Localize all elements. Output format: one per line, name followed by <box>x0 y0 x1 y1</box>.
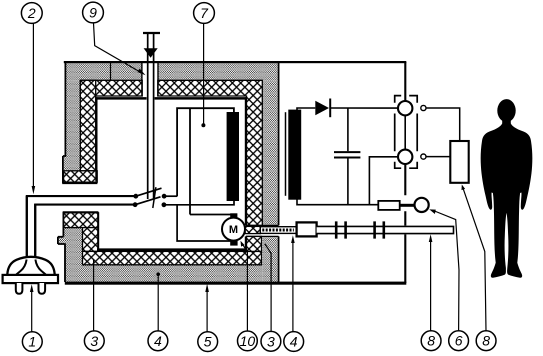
relay coil upper <box>398 101 412 115</box>
chamber outer casing stipple bottom-left tab <box>58 237 64 244</box>
wire lamp inner electrode to motor top <box>190 214 231 216</box>
chamber inner wall crosshatch top band left <box>80 80 142 96</box>
chamber inner wall crosshatch left cap <box>64 171 98 182</box>
antenna gap wall edges <box>142 62 158 96</box>
svg-text:4: 4 <box>290 334 298 350</box>
callout 4 first <box>148 272 168 350</box>
chamber inner liner ceiling <box>95 97 247 100</box>
chamber outer casing stipple top band right <box>158 63 279 81</box>
chamber inner liner left wall <box>95 97 97 181</box>
chamber outer casing border right <box>278 62 280 282</box>
door strip top edge <box>63 211 99 213</box>
callout 10 <box>238 241 258 351</box>
chamber inner wall crosshatch top band right and right column <box>158 80 262 225</box>
capacitor C1 branch upper <box>347 108 349 151</box>
wire switch upper contact to lamp electrode <box>164 195 177 197</box>
relay coil lower <box>398 150 412 164</box>
rod clamp marks pair 2 <box>375 221 384 238</box>
capacitor C1 branch lower <box>347 158 349 204</box>
svg-text:1: 1 <box>28 334 36 350</box>
wall gap edges at shaft <box>246 225 279 236</box>
chamber inner wall crosshatch bottom-left column <box>83 228 99 252</box>
door cap bottom edge <box>62 182 97 184</box>
svg-text:M: M <box>229 224 238 236</box>
chamber outer casing border left <box>58 62 66 282</box>
relay box broken outline <box>395 96 418 169</box>
resistor R1 <box>378 201 399 210</box>
wire resistor to indicator <box>400 204 415 207</box>
relay inter-coil wire <box>404 115 406 150</box>
power cord wire lower <box>35 205 135 259</box>
capacitor C1 <box>334 152 360 157</box>
wire relay terminal upper to electrode 8 <box>426 108 460 141</box>
svg-text:2: 2 <box>27 5 36 21</box>
lamp 7 <box>177 108 239 214</box>
svg-text:4: 4 <box>154 333 162 349</box>
motor M <box>222 213 245 245</box>
callout 1 <box>22 284 42 351</box>
rod clamp marks pair 1 <box>336 221 345 238</box>
wire diode to relay <box>330 107 398 109</box>
svg-text:8: 8 <box>482 333 490 349</box>
svg-text:3: 3 <box>267 333 275 349</box>
chamber inner wall crosshatch left column <box>80 80 95 171</box>
svg-text:8: 8 <box>427 333 435 349</box>
chamber inner wall crosshatch bottom band <box>83 251 262 264</box>
device case top line <box>64 61 407 63</box>
chamber inner wall crosshatch right column lower <box>247 236 262 251</box>
human figure <box>481 99 533 278</box>
callout 8 second <box>462 185 497 351</box>
wire transformer top to diode <box>297 108 315 110</box>
callout 4 second <box>284 235 304 351</box>
device case bottom line <box>65 282 407 285</box>
device case right edge <box>404 62 406 283</box>
switch S1 <box>133 187 167 208</box>
chamber outer casing stipple right column lower <box>262 236 278 281</box>
svg-text:9: 9 <box>89 5 97 21</box>
bottom-left inner column edge <box>97 212 99 250</box>
chamber outer casing stipple right column upper <box>262 80 278 225</box>
plug 1 <box>3 196 58 294</box>
rod 8 <box>317 226 454 233</box>
transformer T1 primary line <box>285 112 287 196</box>
electrode 8 box <box>450 141 468 183</box>
transformer T1 core bar <box>288 110 301 200</box>
callout 2 <box>21 3 42 195</box>
chamber inner wall crosshatch bottom-left strip <box>63 213 98 228</box>
callout 3 second <box>261 244 281 351</box>
callout 9 <box>83 2 146 75</box>
stipple separator seam top wall <box>110 62 112 80</box>
indicator 6 <box>415 198 429 212</box>
wire relay terminal lower to electrode 8 <box>426 156 451 158</box>
callout 7 <box>194 3 215 128</box>
diode VD1 <box>315 99 330 118</box>
svg-text:3: 3 <box>90 333 98 349</box>
svg-text:5: 5 <box>204 334 212 350</box>
relay terminal upper <box>421 105 426 110</box>
chamber outer casing stipple left column <box>66 80 80 171</box>
chamber outer casing stipple bottom band <box>83 265 263 282</box>
wire switch lower contact to lamp anode <box>164 201 234 205</box>
callout 5 <box>198 284 218 352</box>
wire branch to motor bottom <box>177 205 230 241</box>
svg-text:6: 6 <box>455 333 463 349</box>
wire transformer bottom rail <box>297 200 378 205</box>
wire relay lower coil branch <box>369 157 398 205</box>
chamber outer casing stipple left notch <box>64 156 80 171</box>
chamber outer casing stipple bottom-left column <box>64 228 82 282</box>
chamber outer casing stipple top band left <box>66 63 142 81</box>
power cord wire upper <box>27 196 136 258</box>
antenna 9 tube <box>143 33 160 199</box>
chamber inner liner right wall <box>245 97 247 250</box>
shaft coupling box <box>297 222 317 236</box>
callout 3 first <box>84 259 104 351</box>
chamber inner liner floor <box>97 248 247 251</box>
callout 8 first <box>421 234 441 350</box>
svg-text:7: 7 <box>200 5 209 21</box>
motor shaft threaded section <box>260 227 296 234</box>
motor shaft hatched section through wall <box>245 226 260 233</box>
callout 6 <box>429 209 468 350</box>
relay terminal lower <box>421 154 426 159</box>
svg-text:10: 10 <box>240 333 256 349</box>
